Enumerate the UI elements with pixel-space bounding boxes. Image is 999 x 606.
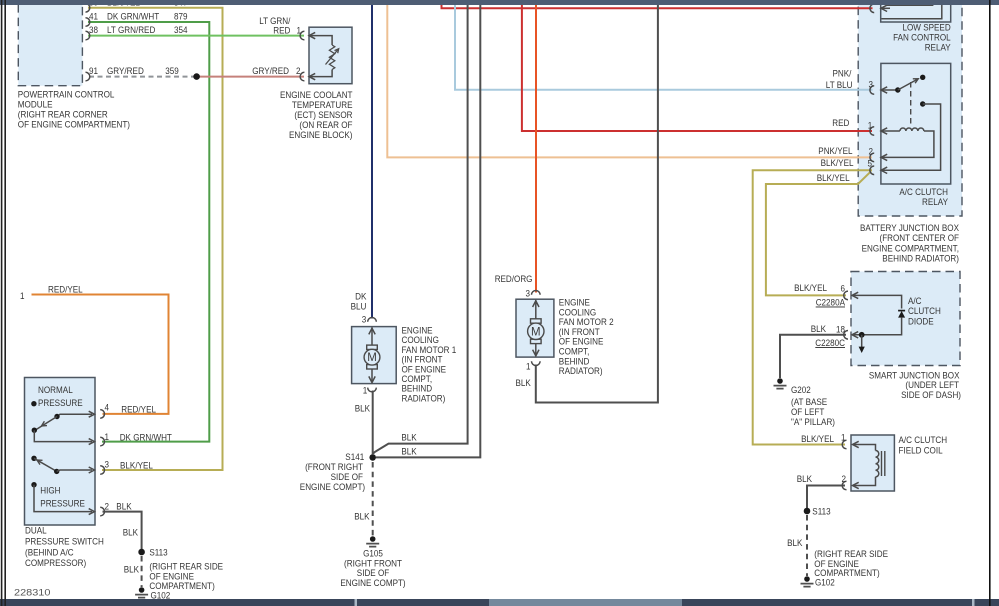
svg-text:RED: RED xyxy=(832,117,849,128)
svg-text:DIODE: DIODE xyxy=(908,316,934,327)
wire DK BLU from top to fan motor 1 pin 3 xyxy=(371,5,373,319)
wire LT GRN/RED 354 from PCM pin 38 to ECT sensor pin 1 xyxy=(88,35,304,37)
svg-text:DK GRN/WHT: DK GRN/WHT xyxy=(120,431,172,442)
wire BLK dashed from S113 to ground G102 (right) xyxy=(806,515,808,576)
svg-text:BLK: BLK xyxy=(354,511,370,522)
dual pressure switch: high pressure contacts xyxy=(31,456,36,461)
wire BLK from A/C clutch field coil pin 2 to splice S113 (right) xyxy=(807,486,845,509)
svg-text:G102: G102 xyxy=(151,590,171,601)
svg-text:RED/YEL: RED/YEL xyxy=(48,284,83,295)
svg-text:1: 1 xyxy=(841,432,846,443)
bottom status bar (page chrome) xyxy=(0,599,999,606)
A/C clutch diode D1 xyxy=(844,291,848,300)
svg-text:1: 1 xyxy=(105,431,110,442)
svg-text:ENGINE COMPT): ENGINE COMPT) xyxy=(300,481,365,492)
svg-text:1: 1 xyxy=(363,385,368,396)
wire BLK from top to splice S141 (lower branch) xyxy=(376,5,480,458)
svg-text:M: M xyxy=(531,326,541,338)
wire BLK dashed from S113 to ground G102 (left) xyxy=(141,556,143,587)
svg-text:RED/YEL: RED/YEL xyxy=(121,403,156,414)
svg-text:BLK/YEL: BLK/YEL xyxy=(794,282,827,293)
battery junction box xyxy=(858,0,962,216)
svg-text:NORMAL: NORMAL xyxy=(38,384,73,395)
smart junction box xyxy=(851,272,960,366)
svg-text:4: 4 xyxy=(105,402,110,413)
wire PNK/YEL from top to A/C clutch relay pin 2 xyxy=(387,5,872,158)
svg-text:BLK: BLK xyxy=(124,564,140,575)
ground G105 xyxy=(370,536,376,542)
svg-text:RED: RED xyxy=(273,25,290,36)
wire RED from top to A/C clutch relay pin 1 xyxy=(522,5,872,132)
svg-text:RADIATOR): RADIATOR) xyxy=(402,392,446,403)
svg-text:S113: S113 xyxy=(812,506,830,517)
svg-text:3: 3 xyxy=(869,78,874,89)
A/C clutch field coil L1 xyxy=(842,440,846,449)
wire DK GRN/WHT 879 from PCM pin 41 to dual pressure switch pin 1 xyxy=(88,22,209,442)
svg-text:6: 6 xyxy=(841,283,846,294)
svg-text:BLK/YEL: BLK/YEL xyxy=(821,157,854,168)
svg-text:BEHIND RADIATOR): BEHIND RADIATOR) xyxy=(882,252,959,263)
svg-text:3: 3 xyxy=(362,314,367,325)
svg-text:18: 18 xyxy=(836,324,845,335)
svg-text:359: 359 xyxy=(165,65,179,76)
svg-text:PRESSURE: PRESSURE xyxy=(38,397,83,408)
svg-text:S113: S113 xyxy=(149,547,167,558)
svg-text:G102: G102 xyxy=(815,577,835,588)
svg-text:BLK: BLK xyxy=(401,432,417,443)
svg-text:SIDE OF DASH): SIDE OF DASH) xyxy=(901,389,961,400)
svg-text:BLK/YEL: BLK/YEL xyxy=(801,433,834,444)
left page border lines xyxy=(2,0,6,606)
svg-text:2: 2 xyxy=(869,145,874,156)
engine coolant temperature (ECT) sensor box xyxy=(309,27,352,83)
wire BLK from diode pin 18 to ground G202 xyxy=(780,335,846,378)
svg-text:LT BLU: LT BLU xyxy=(826,79,853,90)
svg-text:BLK/YEL: BLK/YEL xyxy=(120,459,153,470)
wire RED/YEL from node 1 to dual pressure switch pin 4 xyxy=(32,295,169,414)
svg-text:G202: G202 xyxy=(791,384,811,395)
fan motor 1 box xyxy=(352,327,397,384)
dual pressure switch: normal pressure contacts xyxy=(31,401,36,406)
svg-text:"A" PILLAR): "A" PILLAR) xyxy=(791,416,835,427)
svg-text:PRESSURE: PRESSURE xyxy=(40,498,85,509)
A/C clutch relay coil xyxy=(870,127,874,136)
wire GRY/RED 359 dashed segment from PCM pin 91 xyxy=(89,76,197,78)
svg-text:354: 354 xyxy=(174,24,188,35)
svg-text:OF ENGINE COMPARTMENT): OF ENGINE COMPARTMENT) xyxy=(18,119,130,130)
svg-text:2: 2 xyxy=(842,473,847,484)
svg-text:HIGH: HIGH xyxy=(40,485,60,496)
svg-text:C2280C: C2280C xyxy=(815,337,845,348)
svg-text:5: 5 xyxy=(868,158,873,169)
dual pressure switch box xyxy=(25,378,96,526)
svg-text:1: 1 xyxy=(868,119,873,130)
svg-text:DK GRN/WHT: DK GRN/WHT xyxy=(107,10,159,21)
A/C clutch field coil box xyxy=(851,435,894,491)
wire RED from top to low speed fan control relay pin xyxy=(442,5,873,9)
wire BLK/YEL 347 from PCM to dual pressure switch pin 3 xyxy=(88,8,223,470)
splice S113 (left) xyxy=(138,549,145,556)
svg-text:PNK/: PNK/ xyxy=(833,68,852,79)
svg-text:BLK: BLK xyxy=(516,377,532,388)
wire BLK dashed from S141 to ground G105 xyxy=(372,462,374,536)
motor M2 symbol xyxy=(532,291,541,295)
svg-text:BLK/YEL: BLK/YEL xyxy=(817,172,850,183)
svg-text:COMPRESSOR): COMPRESSOR) xyxy=(25,557,86,568)
field coil core bars xyxy=(882,451,885,476)
svg-text:RELAY: RELAY xyxy=(922,196,949,207)
svg-text:BLK: BLK xyxy=(811,323,827,334)
wire BLK from top to splice S141 (upper branch) xyxy=(374,5,468,455)
svg-text:ENGINE BLOCK): ENGINE BLOCK) xyxy=(289,129,353,140)
svg-text:1: 1 xyxy=(297,25,302,36)
wire RED/ORG from top to fan motor 2 pin 3 xyxy=(535,5,537,293)
splice S113 (right) xyxy=(804,508,811,515)
svg-text:38: 38 xyxy=(89,24,98,35)
diode junction node and down arrow xyxy=(859,332,865,338)
svg-text:GRY/RED: GRY/RED xyxy=(252,65,289,76)
ground G102 (right) xyxy=(804,576,810,582)
svg-text:C2280A: C2280A xyxy=(816,297,846,308)
PCM pin connectors xyxy=(86,4,90,13)
wire BLK from dual pressure switch pin 2 to splice S113 xyxy=(103,512,142,549)
svg-text:BLK: BLK xyxy=(787,537,803,548)
svg-text:2: 2 xyxy=(105,501,110,512)
svg-text:BLK: BLK xyxy=(123,527,139,538)
svg-text:(FRONT CENTER OF: (FRONT CENTER OF xyxy=(880,232,960,243)
wire BLK from fan motor 2 pin 1 up to top xyxy=(536,5,658,403)
svg-text:2: 2 xyxy=(296,65,301,76)
fan motor 2 box xyxy=(516,299,554,357)
svg-text:LT GRN/RED: LT GRN/RED xyxy=(107,24,155,35)
right page border line xyxy=(989,0,991,606)
svg-text:1: 1 xyxy=(526,361,531,372)
ground G102 (left) xyxy=(139,587,145,593)
motor M1 symbol xyxy=(368,318,377,322)
svg-text:GRY/RED: GRY/RED xyxy=(107,65,144,76)
svg-text:BLK: BLK xyxy=(401,446,417,457)
svg-text:PRESSURE SWITCH: PRESSURE SWITCH xyxy=(25,536,104,547)
svg-text:PNK/YEL: PNK/YEL xyxy=(818,145,852,156)
ECT sensor thermistor (variable resistor) xyxy=(300,31,304,40)
wire BLK from fan motor 1 pin 1 to splice S141 xyxy=(372,391,374,455)
svg-text:3: 3 xyxy=(105,458,110,469)
svg-text:41: 41 xyxy=(89,10,98,21)
splice S141 xyxy=(369,454,376,461)
wire BLK/YEL from A/C clutch relay pin 5 to A/C clutch field coil pin 1 xyxy=(753,170,872,444)
svg-text:ENGINE COMPT): ENGINE COMPT) xyxy=(340,577,405,588)
svg-text:1: 1 xyxy=(20,290,25,301)
low speed fan control relay coil (partial) xyxy=(870,4,874,13)
wire GRY/RED 359 solid segment to ECT sensor pin 2 xyxy=(197,76,304,78)
svg-text:BLK: BLK xyxy=(355,403,371,414)
svg-text:BLK: BLK xyxy=(116,500,132,511)
A/C clutch relay box xyxy=(881,63,951,184)
top toolbar (page chrome) xyxy=(0,0,999,5)
svg-text:M: M xyxy=(367,352,377,364)
A/C clutch relay switch contact to pin 5 xyxy=(920,101,925,106)
svg-text:DUAL: DUAL xyxy=(25,525,47,536)
svg-text:RADIATOR): RADIATOR) xyxy=(559,365,603,376)
svg-text:3: 3 xyxy=(526,288,531,299)
svg-text:FIELD COIL: FIELD COIL xyxy=(899,444,943,455)
svg-text:RELAY: RELAY xyxy=(925,42,952,53)
low speed fan control relay box (clipped at top) xyxy=(881,0,951,22)
svg-text:BLU: BLU xyxy=(351,301,367,312)
ground G202 xyxy=(777,378,783,384)
wire BLK/YEL from A/C clutch relay pin 5 to A/C clutch diode pin 6 xyxy=(766,171,871,295)
A/C clutch relay switch xyxy=(870,86,874,95)
wire PNK/LT BLU from top to A/C clutch relay pin 3 xyxy=(455,5,873,90)
svg-text:228310: 228310 xyxy=(14,588,50,599)
svg-text:879: 879 xyxy=(174,10,188,21)
powertrain control module (PCM) box xyxy=(18,0,82,86)
svg-text:(BEHIND A/C: (BEHIND A/C xyxy=(25,547,74,558)
dual pressure switch pin connectors xyxy=(100,410,104,419)
splice node on wire 359 xyxy=(193,73,200,80)
A/C clutch relay actuating dashed link xyxy=(910,82,912,127)
svg-text:RED/ORG: RED/ORG xyxy=(495,273,533,284)
svg-text:91: 91 xyxy=(89,65,98,76)
svg-text:BLK: BLK xyxy=(797,473,813,484)
